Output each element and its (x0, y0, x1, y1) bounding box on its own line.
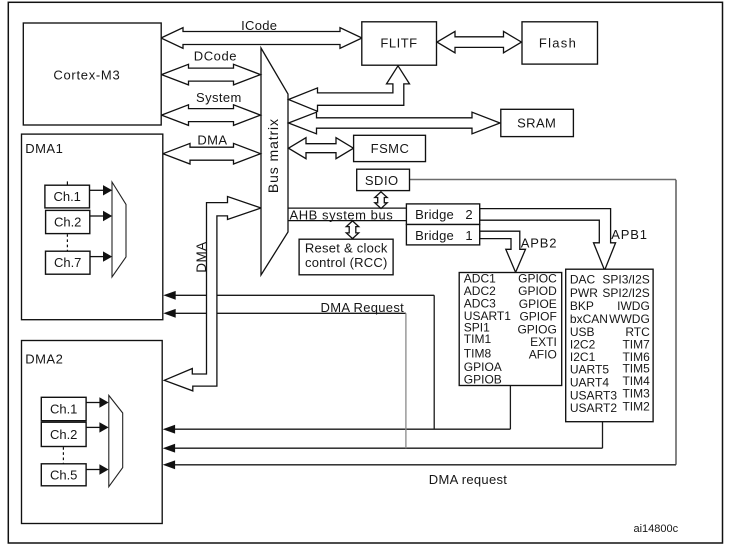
svg-text:ICode: ICode (241, 18, 277, 33)
svg-text:DCode: DCode (194, 48, 237, 63)
svg-text:DAC: DAC (570, 273, 596, 287)
svg-text:DMA request: DMA request (429, 472, 508, 487)
svg-text:GPIOF: GPIOF (519, 310, 556, 324)
svg-text:APB1: APB1 (611, 227, 647, 242)
svg-text:AHB system bus: AHB system bus (290, 208, 394, 223)
svg-text:AFIO: AFIO (529, 348, 557, 362)
svg-text:Bridge 1: Bridge 1 (415, 228, 473, 243)
svg-text:FLITF: FLITF (380, 35, 417, 50)
svg-text:DMA2: DMA2 (25, 351, 63, 366)
svg-text:Ch.5: Ch.5 (50, 467, 77, 482)
svg-text:SPI3/I2S: SPI3/I2S (602, 273, 649, 287)
svg-text:Cortex-M3: Cortex-M3 (53, 68, 120, 83)
svg-text:GPIOD: GPIOD (518, 284, 557, 298)
svg-text:ai14800c: ai14800c (633, 523, 678, 535)
svg-text:System: System (196, 90, 242, 105)
svg-text:SPI2/I2S: SPI2/I2S (602, 286, 649, 300)
svg-text:FSMC: FSMC (371, 141, 410, 156)
svg-text:SDIO: SDIO (365, 173, 399, 188)
svg-text:APB2: APB2 (521, 235, 557, 250)
svg-text:Ch.1: Ch.1 (53, 189, 80, 204)
svg-text:Ch.2: Ch.2 (54, 215, 81, 230)
svg-text:PWR: PWR (570, 286, 598, 300)
svg-text:BKP: BKP (570, 299, 594, 313)
svg-text:TIM8: TIM8 (464, 347, 492, 361)
svg-text:SRAM: SRAM (517, 115, 556, 130)
svg-text:GPIOB: GPIOB (464, 373, 502, 387)
svg-text:TIM1: TIM1 (464, 332, 492, 346)
svg-text:DMA: DMA (197, 133, 227, 148)
svg-text:DMA1: DMA1 (25, 141, 63, 156)
svg-text:Flash: Flash (539, 35, 577, 50)
svg-text:Reset & clock: Reset & clock (305, 241, 388, 256)
svg-text:IWDG: IWDG (617, 299, 650, 313)
svg-text:Ch.7: Ch.7 (54, 255, 81, 270)
svg-text:UART4: UART4 (570, 376, 609, 390)
svg-text:Ch.2: Ch.2 (50, 427, 77, 442)
svg-text:DMA: DMA (194, 241, 209, 272)
svg-text:Bridge 2: Bridge 2 (415, 207, 473, 222)
svg-text:DMA Request: DMA Request (321, 300, 405, 315)
svg-text:TIM2: TIM2 (622, 400, 650, 414)
svg-text:Ch.1: Ch.1 (50, 402, 77, 417)
svg-text:control (RCC): control (RCC) (305, 255, 388, 270)
svg-text:Bus matrix: Bus matrix (265, 118, 281, 193)
svg-text:TIM3: TIM3 (622, 387, 650, 401)
svg-text:USART2: USART2 (570, 401, 617, 415)
